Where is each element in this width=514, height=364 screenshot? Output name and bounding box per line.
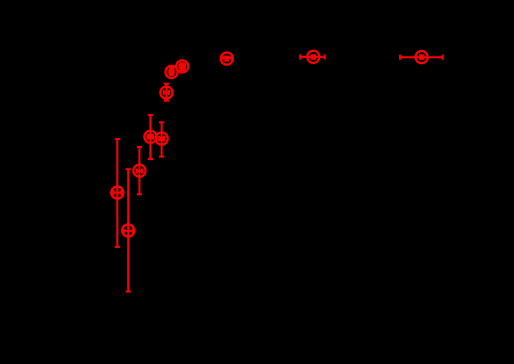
data point M7 circle — [144, 131, 156, 143]
data point M6 y-error bar — [165, 84, 167, 101]
data point M2 x-error bar — [400, 56, 443, 58]
data point M8 center blob — [159, 137, 164, 141]
data point M3 y-error bar — [226, 57, 228, 61]
data point M4 circle — [176, 60, 188, 72]
data point M10 x-error bar — [113, 192, 121, 194]
data point M11 y-error bar — [127, 169, 129, 291]
data point M5 y-error bar — [171, 68, 173, 75]
data point M2 circle — [416, 51, 428, 63]
data point M1 circle — [307, 51, 319, 63]
data point M1 x-error bar — [300, 56, 325, 58]
data point M5 center blob — [169, 67, 174, 76]
data point M4 y-error bar — [181, 63, 183, 70]
data point M11 x-error bar — [124, 230, 133, 232]
data point M10 circle — [111, 187, 123, 199]
data point M10 y-error bar — [116, 139, 118, 247]
data point M5 x-error bar — [169, 71, 173, 73]
data point M2 y-error bar — [421, 55, 423, 59]
data point M9 x-error bar — [137, 170, 142, 172]
data point M9 circle — [133, 165, 145, 177]
data point M3 x-error bar — [221, 57, 232, 59]
data point M7 x-error bar — [147, 136, 153, 138]
data point M11 circle — [122, 224, 134, 236]
data point M8 x-error bar — [159, 138, 164, 140]
data point M5 circle — [165, 66, 177, 78]
data point M7 center blob — [147, 134, 154, 140]
data point M3 circle — [221, 53, 233, 65]
data point M8 circle — [156, 133, 168, 145]
data point M3 center blob — [221, 56, 233, 59]
data point M4 center blob — [179, 63, 185, 71]
data point M7 y-error bar — [149, 115, 151, 159]
data point M4 x-error bar — [180, 65, 186, 67]
data point M6 x-error bar — [164, 92, 169, 94]
data point M6 circle — [160, 87, 172, 99]
data point M1 y-error bar — [312, 55, 314, 59]
data point M9 y-error bar — [138, 147, 140, 194]
data point M8 y-error bar — [161, 122, 163, 156]
